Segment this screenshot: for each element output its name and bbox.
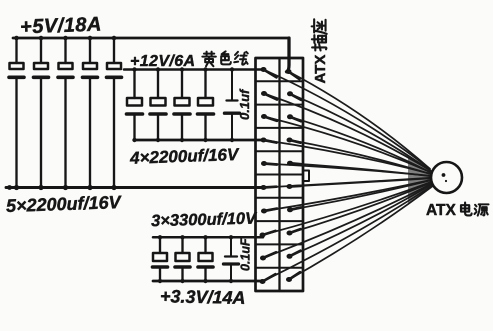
connector latch tab [303, 171, 309, 182]
capacitor C9 2200uF/16V (electrolytic) [198, 70, 214, 141]
capacitor C4 2200uF/16V (electrolytic) [83, 38, 98, 188]
capacitor C14 0.1uF ceramic [224, 237, 239, 281]
node junction dots on +12V top bus [132, 67, 234, 71]
pin 12 (row 6 right) and wire to ATX PSU [287, 178, 432, 189]
svg-text:+3.3V/14A: +3.3V/14A [160, 286, 246, 308]
ATX power supply circle [431, 162, 462, 193]
connector row divider 7 [256, 220, 304, 222]
wire +12V top bus [124, 68, 263, 71]
connector row divider 8 [256, 243, 304, 245]
dot marks inside PSU circle [442, 173, 448, 182]
capacitor C12 3300uF/10V (electrolytic) [175, 237, 190, 281]
svg-text:3×3300uf/10V: 3×3300uf/10V [151, 209, 258, 230]
pin 4 (row 2 right) and wire to ATX PSU [287, 91, 431, 170]
pin 17 (row 9 left) and wire to ATX PSU [260, 184, 432, 261]
pin 18 (row 9 right) and wire to ATX PSU [287, 184, 433, 259]
pin 1 (row 1 left) and wire to ATX PSU [261, 67, 430, 169]
pin 7 (row 4 left) and wire to ATX PSU [261, 138, 431, 174]
svg-text:0.1uf: 0.1uf [237, 88, 252, 120]
pin 11 (row 6 left) and wire to ATX PSU [261, 178, 432, 190]
pin 2 (row 1 right) and wire to ATX PSU [286, 69, 431, 169]
svg-text:0.1uF: 0.1uF [239, 238, 253, 271]
pin 10 (row 5 right) and wire to ATX PSU [287, 161, 431, 177]
connector row divider 1 [256, 80, 304, 82]
wire +5V top bus [13, 37, 289, 40]
pin 5 (row 3 left) and wire to ATX PSU [261, 114, 430, 172]
pin 19 (row 10 left) and wire to ATX PSU [260, 186, 433, 284]
pin 6 (row 3 right) and wire to ATX PSU [287, 114, 431, 172]
connector row divider 3 [256, 127, 304, 129]
svg-text:+12V/6A: +12V/6A [130, 53, 196, 70]
pin 14 (row 7 right) and wire to ATX PSU [287, 180, 432, 212]
svg-text:4×2200uf/16V: 4×2200uf/16V [129, 145, 240, 168]
capacitor C7 2200uF/16V (electrolytic) [150, 70, 166, 141]
pin 20 (row 10 right) and wire to ATX PSU [286, 186, 433, 282]
capacitor C5 2200uF/16V (electrolytic) [107, 38, 122, 188]
svg-text:+5V/18A: +5V/18A [20, 14, 103, 39]
capacitor C13 3300uF/10V (electrolytic) [198, 237, 213, 281]
capacitor C8 2200uF/16V (electrolytic) [174, 70, 190, 141]
pin 3 (row 2 left) and wire to ATX PSU [261, 91, 430, 170]
value label 0.1uF (rotated) [239, 238, 253, 271]
capacitor C2 2200uF/16V (electrolytic) [34, 38, 49, 188]
connector row divider 4 [256, 150, 304, 152]
capacitor C10 0.1uF ceramic [225, 70, 240, 141]
capacitor C11 3300uF/10V (electrolytic) [153, 237, 168, 281]
svg-text:ATX: ATX [312, 55, 329, 84]
svg-text:ATX: ATX [426, 202, 457, 219]
pin 16 (row 8 right) and wire to ATX PSU [287, 182, 433, 235]
connector center divider [278, 58, 280, 291]
wire +5V bottom bus to connector [6, 186, 263, 189]
node junction dots on +3.3V top bus [158, 235, 233, 239]
connector row divider 5 [256, 174, 304, 176]
pin 9 (row 5 left) and wire to ATX PSU [261, 161, 431, 176]
wire +3.3V top bus [153, 236, 263, 239]
label yellow-wire (huang se xian) [202, 51, 247, 66]
node junction dots on +5V bottom bus [7, 185, 117, 190]
dense wire bundle wedge at convergence [408, 158, 432, 204]
connector J1 ATX socket outline [256, 58, 304, 291]
label ATX socket (rotated, ATX cha zuo) [312, 19, 329, 83]
capacitor C3 2200uF/16V (electrolytic) [58, 38, 73, 188]
capacitor C1 2200uF/16V (electrolytic) [9, 38, 24, 188]
pin 15 (row 8 left) and wire to ATX PSU [260, 182, 432, 238]
pin 8 (row 4 right) and wire to ATX PSU [287, 138, 432, 175]
wire +5V bus drop into connector row 1 [287, 38, 290, 72]
node junction dots on +5V top bus [14, 36, 116, 41]
label ATX power supply (ATX dian yuan) [426, 202, 489, 219]
wire +12V bottom bus to connector [135, 139, 264, 142]
connector row divider 2 [256, 104, 304, 106]
svg-text:5×2200uf/16V: 5×2200uf/16V [6, 192, 123, 216]
capacitor C6 2200uF/16V (electrolytic) [127, 70, 143, 141]
connector row divider 9 [256, 267, 304, 269]
connector row divider 6 [256, 197, 304, 199]
node junction dots on +3.3V bottom bus [158, 279, 233, 283]
pin 13 (row 7 left) and wire to ATX PSU [261, 180, 431, 214]
value label 0.1uf (rotated) [237, 88, 252, 120]
node junction dots on +12V bottom bus [132, 138, 234, 142]
wire +3.3V bottom bus to connector [153, 280, 263, 283]
